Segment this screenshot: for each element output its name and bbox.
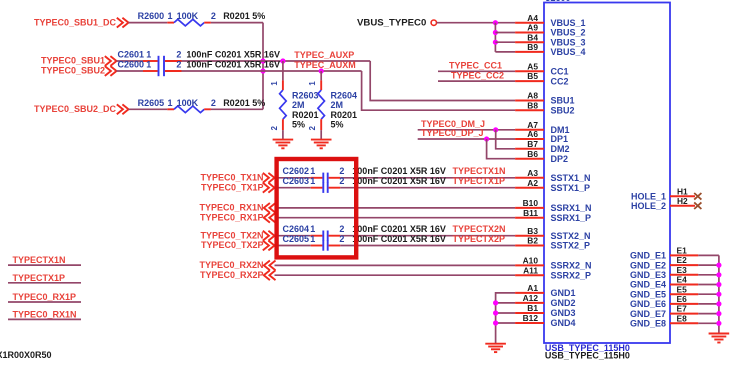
svg-text:100nF C0201 X5R 16V: 100nF C0201 X5R 16V xyxy=(186,50,280,60)
svg-text:E1: E1 xyxy=(677,246,688,256)
svg-text:2: 2 xyxy=(339,166,344,176)
svg-text:DM2: DM2 xyxy=(551,144,570,154)
svg-text:E3: E3 xyxy=(677,265,688,275)
no-connect X H1 xyxy=(694,193,701,200)
svg-text:TYPEC0_SBU1: TYPEC0_SBU1 xyxy=(41,56,105,66)
svg-text:B8: B8 xyxy=(527,100,538,110)
svg-text:DP2: DP2 xyxy=(551,154,569,164)
pin E8 GND_E8 stub xyxy=(670,322,698,324)
svg-text:C2603: C2603 xyxy=(283,176,310,186)
no-connect X H2 xyxy=(694,202,701,209)
svg-text:TYPEC_AUXM: TYPEC_AUXM xyxy=(294,60,356,70)
pin B7 DM2 stub xyxy=(515,148,544,150)
svg-text:SSTX2_P: SSTX2_P xyxy=(551,241,591,251)
junction AUXP / R2603 xyxy=(280,58,285,63)
junction B4 xyxy=(493,40,498,45)
pin B12 GND4 stub xyxy=(515,322,544,324)
svg-text:SSTX1_P: SSTX1_P xyxy=(551,183,591,193)
pin E4 GND_E4 stub xyxy=(670,284,698,286)
svg-text:SSRX2_N: SSRX2_N xyxy=(551,261,592,271)
svg-text:GND3: GND3 xyxy=(551,308,576,318)
pin B9 VBUS_4 stub xyxy=(515,51,544,53)
svg-text:E4: E4 xyxy=(677,275,688,285)
svg-text:TYPEC0_SBU2_DC: TYPEC0_SBU2_DC xyxy=(34,104,117,114)
svg-text:J2600: J2600 xyxy=(546,0,571,3)
svg-text:TYPEC0_DP_J: TYPEC0_DP_J xyxy=(421,128,484,138)
svg-text:E6: E6 xyxy=(677,294,688,304)
pin A4 VBUS_1 stub xyxy=(515,22,544,24)
svg-text:2: 2 xyxy=(339,234,344,244)
wire TYPEC0_TX2P to C2605 xyxy=(275,245,311,247)
svg-text:A8: A8 xyxy=(527,91,538,101)
svg-text:TYPEC0_RX2N: TYPEC0_RX2N xyxy=(199,260,263,270)
svg-text:GND4: GND4 xyxy=(551,318,576,328)
svg-text:R2600: R2600 xyxy=(138,11,165,21)
svg-text:2: 2 xyxy=(211,11,216,21)
svg-text:SSRX1_P: SSRX1_P xyxy=(551,213,592,223)
svg-text:R2605: R2605 xyxy=(138,98,165,108)
wire vertical x=263 joining SBU bias xyxy=(262,23,264,110)
junction E8 xyxy=(716,321,721,326)
pin A9 VBUS_2 stub xyxy=(515,32,544,34)
wire E3 to gnd rail xyxy=(698,274,719,276)
svg-text:C2601: C2601 xyxy=(118,50,145,60)
svg-text:GND2: GND2 xyxy=(551,298,576,308)
pin B10 SSRX1_N stub xyxy=(515,207,544,209)
svg-text:A10: A10 xyxy=(523,256,539,266)
svg-text:R0201 5%: R0201 5% xyxy=(223,98,265,108)
junction AUXM / R2604 xyxy=(319,68,324,73)
wire E1 to gnd rail xyxy=(698,254,719,256)
pin A3 SSTX1_N stub xyxy=(515,177,544,179)
svg-text:B9: B9 xyxy=(527,42,538,52)
junction E6 xyxy=(716,301,721,306)
svg-text:TYPEC0_RX2P: TYPEC0_RX2P xyxy=(200,270,264,280)
svg-text:TYPEC0_RX1P: TYPEC0_RX1P xyxy=(13,292,77,302)
svg-text:2M: 2M xyxy=(331,100,344,110)
wire TYPEC0_SBU1_DC to R2600 xyxy=(129,22,168,24)
svg-text:1: 1 xyxy=(270,81,279,86)
svg-text:H2: H2 xyxy=(677,196,688,206)
red highlight box around TX coupling caps xyxy=(277,159,357,257)
junction E4 xyxy=(716,282,721,287)
capacitor C2604 100nF xyxy=(311,235,323,237)
svg-text:1: 1 xyxy=(310,234,315,244)
wire E5 to gnd rail xyxy=(698,293,719,295)
svg-text:2: 2 xyxy=(339,224,344,234)
wire DM branch to DM2 xyxy=(496,130,515,149)
pin H1 HOLE_1 stub xyxy=(670,195,695,197)
svg-text:TYPECTX1P: TYPECTX1P xyxy=(13,273,66,283)
svg-text:2: 2 xyxy=(176,60,181,70)
pin B6 DP2 stub xyxy=(515,158,544,160)
wire R2600 to vertical xyxy=(211,22,263,24)
wire TYPEC0_SBU2 to C2600 xyxy=(117,70,144,72)
ground GND pins xyxy=(485,343,506,345)
wire TYPECTX1P to pin xyxy=(340,187,515,189)
wire AUXM down to SBU2 pin xyxy=(362,71,515,110)
pin A7 DM1 stub xyxy=(515,129,544,131)
svg-text:A5: A5 xyxy=(527,61,538,71)
pin A1 GND1 stub xyxy=(515,292,544,294)
svg-text:A11: A11 xyxy=(523,265,538,275)
wire TYPEC0_TX1N to C2602 xyxy=(275,177,311,179)
resistor R2603 2M pulldown xyxy=(282,61,284,80)
pin A6 DP1 stub xyxy=(515,138,544,140)
wire GND1 pin A1 xyxy=(496,293,515,343)
pin B1 GND3 stub xyxy=(515,312,544,314)
junction E3 xyxy=(716,272,721,277)
pin A2 SSTX1_P stub xyxy=(515,187,544,189)
pin B8 SBU2 stub xyxy=(515,109,544,111)
svg-text:B2: B2 xyxy=(527,236,538,246)
svg-text:A3: A3 xyxy=(527,168,538,178)
svg-text:2: 2 xyxy=(339,176,344,186)
svg-text:100nF C0201 X5R 16V: 100nF C0201 X5R 16V xyxy=(352,176,446,186)
svg-text:TYPEC0_RX1N: TYPEC0_RX1N xyxy=(199,203,263,213)
wire TYPECTX1N to pin xyxy=(340,177,515,179)
svg-text:TYPEC0_TX2P: TYPEC0_TX2P xyxy=(201,240,264,250)
svg-text:1: 1 xyxy=(168,98,173,108)
svg-text:SSRX2_P: SSRX2_P xyxy=(551,270,592,280)
svg-text:B7: B7 xyxy=(527,139,538,149)
pin B2 SSTX2_P stub xyxy=(515,245,544,247)
junction DP branch xyxy=(484,136,489,141)
svg-text:B12: B12 xyxy=(523,313,539,323)
wire TYPEC_CC1 xyxy=(438,70,515,72)
svg-text:A4: A4 xyxy=(527,13,538,23)
svg-text:R0201: R0201 xyxy=(331,110,358,120)
resistor R2605 100K xyxy=(167,108,174,110)
wire TYPEC0_SBU1 to C2601 xyxy=(117,60,144,62)
svg-text:E8: E8 xyxy=(677,313,688,323)
svg-text:1: 1 xyxy=(310,166,315,176)
svg-text:TYPEC_CC1: TYPEC_CC1 xyxy=(449,61,502,71)
wire AUXP down to SBU1 pin xyxy=(370,61,515,101)
svg-text:R2604: R2604 xyxy=(331,91,358,101)
svg-text:2: 2 xyxy=(211,98,216,108)
svg-text:CC1: CC1 xyxy=(551,67,569,77)
pin B11 SSRX1_P stub xyxy=(515,217,544,219)
wire TYPECTX2N to pin xyxy=(340,235,515,237)
svg-text:VBUS_2: VBUS_2 xyxy=(551,28,586,38)
wire VBUS vertical xyxy=(494,23,496,52)
capacitor C2601 100nF xyxy=(143,60,158,62)
svg-text:R0201 5%: R0201 5% xyxy=(223,11,265,21)
wire TYPEC0_RX2P to pin xyxy=(275,274,516,276)
wire TYPEC0_SBU2_DC to R2605 xyxy=(129,108,168,110)
svg-text:VBUS_4: VBUS_4 xyxy=(551,47,586,57)
wire GND2 xyxy=(496,302,515,304)
svg-text:CC2: CC2 xyxy=(551,76,569,86)
svg-text:X1R00X0R50: X1R00X0R50 xyxy=(0,350,52,360)
open terminal circle xyxy=(431,20,436,25)
svg-text:C2604: C2604 xyxy=(283,224,310,234)
wire TYPECTX2P to pin xyxy=(340,245,515,247)
wire TYPEC0_RX1N stub xyxy=(8,318,81,320)
wire DP branch to DP2 xyxy=(487,139,515,159)
wire to B4 xyxy=(495,41,515,43)
svg-text:HOLE_2: HOLE_2 xyxy=(631,201,666,211)
svg-text:100nF C0201 X5R 16V: 100nF C0201 X5R 16V xyxy=(186,60,280,70)
svg-text:GND_E5: GND_E5 xyxy=(630,289,666,299)
junction GND3 xyxy=(493,310,498,315)
junction at AUXP xyxy=(260,58,265,63)
svg-text:5%: 5% xyxy=(292,119,305,129)
svg-text:A9: A9 xyxy=(527,23,538,33)
svg-text:TYPEC0_TX1N: TYPEC0_TX1N xyxy=(200,173,263,183)
junction GND2 xyxy=(493,300,498,305)
svg-text:SSRX1_N: SSRX1_N xyxy=(551,203,592,213)
capacitor C2603 100nF xyxy=(311,187,323,189)
svg-text:E2: E2 xyxy=(677,255,688,265)
svg-text:GND1: GND1 xyxy=(551,288,576,298)
svg-text:TYPEC_AUXP: TYPEC_AUXP xyxy=(294,50,354,60)
svg-text:TYPECTX1P: TYPECTX1P xyxy=(453,176,506,186)
svg-text:100nF C0201 X5R 16V: 100nF C0201 X5R 16V xyxy=(352,166,446,176)
pin A10 SSRX2_N stub xyxy=(515,264,544,266)
svg-text:5%: 5% xyxy=(331,119,344,129)
svg-text:E5: E5 xyxy=(677,284,688,294)
svg-text:VBUS_TYPEC0: VBUS_TYPEC0 xyxy=(357,17,426,28)
svg-text:TYPEC0_TX2N: TYPEC0_TX2N xyxy=(200,230,263,240)
wire TYPEC0_TX2N to C2604 xyxy=(275,235,311,237)
svg-text:TYPECTX1N: TYPECTX1N xyxy=(13,255,66,265)
wire GND4 xyxy=(496,322,515,324)
svg-text:SSTX1_N: SSTX1_N xyxy=(551,173,591,183)
svg-text:SBU2: SBU2 xyxy=(551,105,575,115)
svg-text:DP1: DP1 xyxy=(551,134,569,144)
wire E6 to gnd rail xyxy=(698,303,719,305)
svg-text:100K: 100K xyxy=(177,98,199,108)
svg-text:TYPECTX1N: TYPECTX1N xyxy=(453,166,506,176)
svg-text:1: 1 xyxy=(310,224,315,234)
ground R2603 xyxy=(273,139,294,141)
wire to A9 xyxy=(495,32,515,34)
net TYPEC_AUXM wire xyxy=(182,70,362,72)
wire TYPEC0_DM_J to DM1 xyxy=(418,129,515,131)
svg-text:USB_TYPEC_115H0: USB_TYPEC_115H0 xyxy=(545,350,630,360)
net TYPEC_AUXP wire xyxy=(182,60,371,62)
svg-text:1: 1 xyxy=(310,176,315,186)
connector J2600 USB Type-C body xyxy=(544,3,670,344)
wire VBUS to pin A4 xyxy=(437,22,515,24)
resistor R2600 100K xyxy=(167,22,174,24)
wire GND_E vertical rail xyxy=(718,255,720,333)
pin E5 GND_E5 stub xyxy=(670,293,698,295)
pin B4 VBUS_3 stub xyxy=(515,41,544,43)
junction GND4 xyxy=(493,320,498,325)
pin H2 HOLE_2 stub xyxy=(670,205,695,207)
wire TYPEC_CC2 xyxy=(438,80,515,82)
svg-text:GND_E8: GND_E8 xyxy=(630,319,666,329)
svg-text:VBUS_3: VBUS_3 xyxy=(551,37,586,47)
svg-text:C2602: C2602 xyxy=(283,166,310,176)
svg-text:2: 2 xyxy=(270,125,279,130)
svg-text:1: 1 xyxy=(168,11,173,21)
svg-text:GND_E3: GND_E3 xyxy=(630,270,666,280)
wire R2605 to vertical xyxy=(211,108,263,110)
svg-text:TYPECTX2P: TYPECTX2P xyxy=(453,234,506,244)
svg-text:B3: B3 xyxy=(527,226,538,236)
svg-text:SSTX2_N: SSTX2_N xyxy=(551,231,591,241)
junction DM branch xyxy=(493,127,498,132)
svg-text:A2: A2 xyxy=(527,178,538,188)
svg-text:100K: 100K xyxy=(177,11,199,21)
svg-text:VBUS_1: VBUS_1 xyxy=(551,18,586,28)
svg-text:B10: B10 xyxy=(523,198,539,208)
pin B5 CC2 stub xyxy=(515,80,544,82)
svg-text:A12: A12 xyxy=(523,293,539,303)
svg-text:A6: A6 xyxy=(527,129,538,139)
resistor R2604 2M pulldown xyxy=(320,71,322,80)
wire TYPEC0_DP_J to DP1 xyxy=(418,138,515,140)
svg-text:B4: B4 xyxy=(527,32,538,42)
svg-text:B11: B11 xyxy=(523,208,538,218)
pin E2 GND_E2 stub xyxy=(670,264,698,266)
capacitor C2605 100nF xyxy=(311,245,323,247)
svg-text:R0201: R0201 xyxy=(292,110,319,120)
wire E8 to gnd rail xyxy=(698,322,719,324)
svg-text:TYPEC0_RX1N: TYPEC0_RX1N xyxy=(13,309,77,319)
wire GND3 xyxy=(496,312,515,314)
svg-text:GND_E1: GND_E1 xyxy=(630,251,666,261)
wire TYPEC0_RX1P stub xyxy=(8,301,81,303)
svg-text:2: 2 xyxy=(176,50,181,60)
pin E6 GND_E6 stub xyxy=(670,303,698,305)
svg-text:A1: A1 xyxy=(527,283,538,293)
wire TYPEC0_RX2N to pin xyxy=(275,264,516,266)
wire TYPEC0_RX1P to pin xyxy=(275,217,516,219)
pin A8 SBU1 stub xyxy=(515,100,544,102)
pin A5 CC1 stub xyxy=(515,70,544,72)
wire E7 to gnd rail xyxy=(698,313,719,315)
svg-text:TYPEC0_RX1P: TYPEC0_RX1P xyxy=(200,212,264,222)
capacitor C2600 100nF xyxy=(143,70,158,72)
svg-text:C2600: C2600 xyxy=(118,60,145,70)
junction E2 xyxy=(716,263,721,268)
wire TYPEC0_RX1N to pin xyxy=(275,207,516,209)
svg-text:GND_E4: GND_E4 xyxy=(630,280,666,290)
wire E2 to gnd rail xyxy=(698,264,719,266)
wire TYPECTX1N stub xyxy=(8,264,81,266)
junction A9 xyxy=(493,30,498,35)
junction at AUXM xyxy=(260,68,265,73)
svg-text:R2603: R2603 xyxy=(292,91,319,101)
junction E5 xyxy=(716,292,721,297)
svg-text:TYPEC0_TX1P: TYPEC0_TX1P xyxy=(201,182,264,192)
svg-text:GND_E6: GND_E6 xyxy=(630,299,666,309)
pin B3 SSTX2_N stub xyxy=(515,235,544,237)
pin A12 GND2 stub xyxy=(515,302,544,304)
svg-text:C2605: C2605 xyxy=(283,234,310,244)
svg-text:2: 2 xyxy=(308,125,317,130)
svg-text:1: 1 xyxy=(308,81,317,86)
svg-text:GND_E7: GND_E7 xyxy=(630,309,666,319)
svg-text:TYPEC0_SBU2: TYPEC0_SBU2 xyxy=(41,66,105,76)
wire TYPEC0_TX1P to C2603 xyxy=(275,187,311,189)
svg-text:E7: E7 xyxy=(677,304,688,314)
pin E7 GND_E7 stub xyxy=(670,313,698,315)
svg-text:100nF C0201 X5R 16V: 100nF C0201 X5R 16V xyxy=(352,234,446,244)
capacitor C2602 100nF xyxy=(311,177,323,179)
ground R2604 xyxy=(311,139,332,141)
pin E3 GND_E3 stub xyxy=(670,274,698,276)
svg-text:B6: B6 xyxy=(527,149,538,159)
wire TYPECTX1P stub xyxy=(8,282,81,284)
ground GND_E rail xyxy=(709,333,730,335)
svg-text:B5: B5 xyxy=(527,71,538,81)
svg-text:2M: 2M xyxy=(292,100,305,110)
svg-text:B1: B1 xyxy=(527,303,538,313)
svg-text:TYPECTX2N: TYPECTX2N xyxy=(453,224,506,234)
svg-text:1: 1 xyxy=(146,60,151,70)
svg-text:1: 1 xyxy=(146,50,151,60)
junction E7 xyxy=(716,311,721,316)
pin A11 SSRX2_P stub xyxy=(515,274,544,276)
pin E1 GND_E1 stub xyxy=(670,254,698,256)
svg-text:100nF C0201 X5R 16V: 100nF C0201 X5R 16V xyxy=(352,224,446,234)
junction VBUS branch xyxy=(493,20,498,25)
svg-text:GND_E2: GND_E2 xyxy=(630,260,666,270)
wire E4 to gnd rail xyxy=(698,284,719,286)
wire to B9 xyxy=(495,51,515,53)
svg-text:TYPEC0_SBU1_DC: TYPEC0_SBU1_DC xyxy=(34,17,117,27)
svg-text:SBU1: SBU1 xyxy=(551,96,575,106)
svg-text:TYPEC_CC2: TYPEC_CC2 xyxy=(451,70,504,80)
